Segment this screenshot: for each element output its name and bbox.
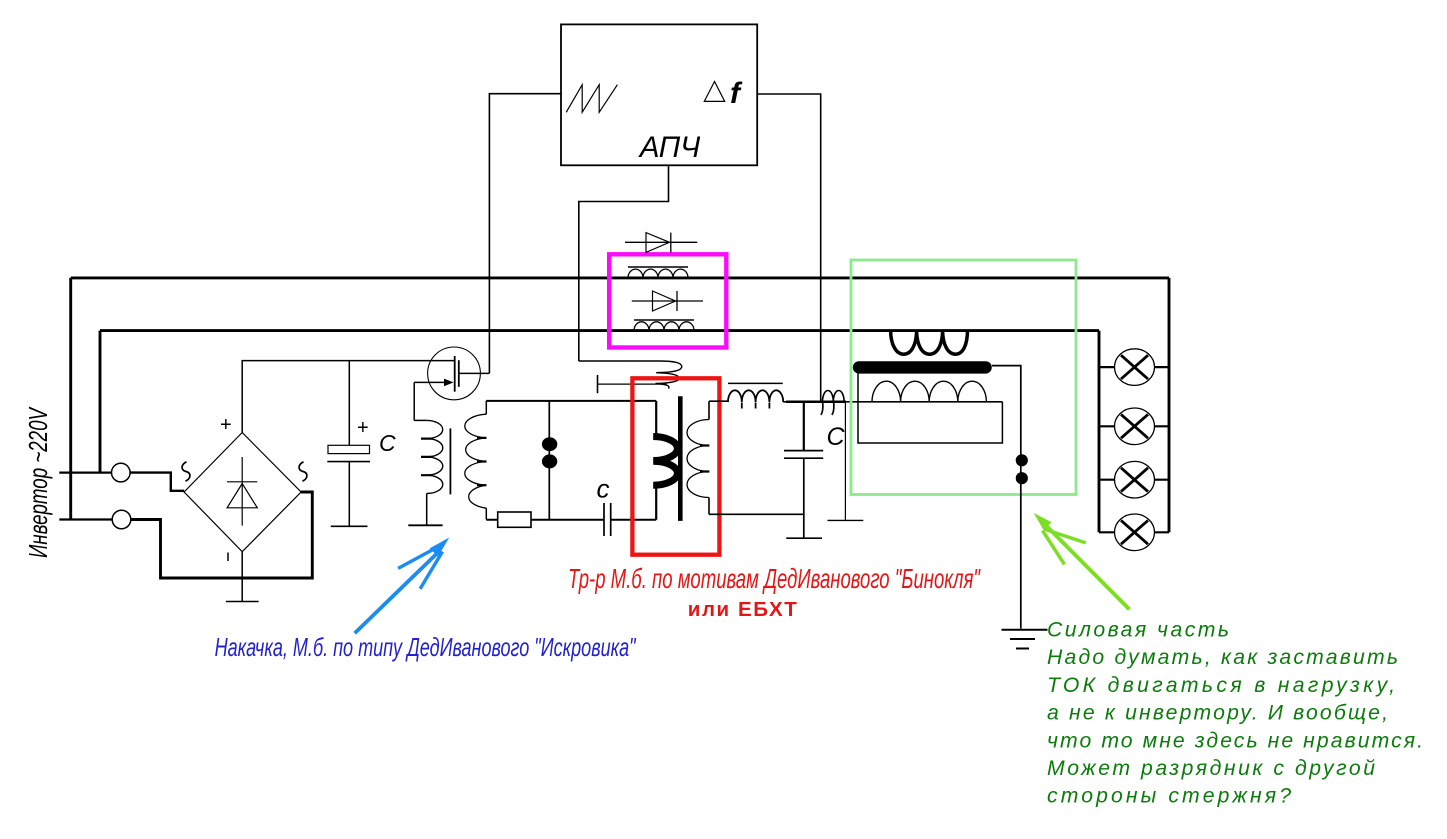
junction dot A1 [542,437,557,451]
T1 core line [449,428,451,494]
junction dot A2 [542,454,557,468]
lamp EL4 [1099,514,1169,551]
green annotation arrow [1034,513,1130,610]
green highlight box [851,260,1076,495]
MOSFET Q1 circle [428,347,481,400]
svg-text:C: C [379,430,396,456]
svg-text:стороны стержня?: стороны стержня? [1047,785,1291,808]
terminal X2 [112,510,131,529]
top bus wire [71,276,1169,279]
T4 core heavy bar [859,361,986,373]
terminal X1 [112,463,131,482]
wire APCh left to drain vertical [489,94,561,374]
sawtooth waveform symbol [566,85,617,113]
T4 winding return frame [858,374,1002,444]
junction dot B1 [1016,454,1028,466]
diode VD1 [625,233,697,253]
capacitor C1 polarized [327,361,370,527]
T2 core bar [678,396,683,521]
saturable reactor L2 [628,267,688,278]
magenta highlight box [609,254,726,347]
wire stub to terminal 1 [59,472,111,474]
wire bridge plus to gate line [242,361,455,433]
junction link wire [548,401,550,520]
wire left drop from second bus [99,331,102,473]
bridge rectifier VD diamond [184,433,301,552]
svg-text:Накачка, М.б. по типу ДедИвано: Накачка, М.б. по типу ДедИванового "Искр… [215,632,637,662]
ground symbol bottom right [1002,630,1048,649]
MOSFET Q1 source wire with arrow [414,379,453,421]
MOSFET Q1 gate bar [454,356,456,392]
T4 secondary winding [872,381,986,402]
feedback mini transformer T3 [821,391,844,415]
svg-text:Силовая часть: Силовая часть [1047,619,1229,642]
svg-text:Надо думать, как заставить: Надо думать, как заставить [1047,646,1398,669]
svg-text:c: c [597,473,610,503]
spark gap stub wire [828,402,864,521]
svg-text:а не к инвертору. И вообще,: а не к инвертору. И вообще, [1047,702,1388,725]
minus label of bridge [227,553,229,562]
diode VD2 [632,291,703,311]
AC tilde left [182,462,190,481]
pump transformer T1 primary winding [414,420,443,525]
lamp bus left [1098,331,1101,533]
capacitor C3 [784,402,823,538]
svg-text:ТОК двигаться в нагрузку,: ТОК двигаться в нагрузку, [1047,674,1395,697]
svg-text:Тр-р М.б. по мотивам ДедИванов: Тр-р М.б. по мотивам ДедИванового "Бинок… [568,563,981,594]
main transformer T2 secondary winding [687,401,709,514]
MOSFET Q1 drain wire [459,372,490,374]
capacitor c2 series [604,503,611,536]
saturable reactor L3 [634,320,694,331]
oscillator top wire [486,400,656,402]
svg-text:что то мне здесь не нравится.: что то мне здесь не нравится. [1047,729,1423,752]
svg-text:или ЕБХТ: или ЕБХТ [688,598,797,621]
svg-text:Инвертор ~220V: Инвертор ~220V [23,406,53,558]
MOSFET Q1 channel bar [458,360,460,387]
svg-text:C: C [827,423,846,451]
power transformer T4 primary thick coil [891,331,968,354]
svg-text:АПЧ: АПЧ [638,131,701,164]
delta-f symbol [704,82,724,102]
pump transformer T1 secondary winding [465,401,487,520]
lamp EL3 [1099,461,1169,498]
blue annotation arrow [355,538,450,634]
green annotation text [1047,619,1423,808]
wire terminal1 to bridge AC1 [130,473,184,491]
svg-text:+: + [220,414,232,436]
lamp EL1 [1099,349,1169,386]
oscillator bottom wire [486,519,656,521]
wire terminal2 to bridge AC2 [131,492,312,578]
wire thick segment [786,401,846,404]
wire APCh right [757,94,821,402]
wire choke to power coil [783,401,1002,403]
bridge inner diode [227,457,257,526]
bridge minus stem to ground [241,552,243,602]
second bus wire [100,329,1099,332]
AC tilde right [299,462,307,481]
main transformer T2 primary thick winding [653,401,677,520]
choke L1 [728,383,783,408]
red highlight box [632,378,719,554]
lamp EL2 [1099,408,1169,445]
T2 secondary top lead [709,400,728,402]
ground of T1 primary [408,524,442,526]
pigtail coupling loop [579,361,682,389]
resistor R1 [498,512,531,527]
ground of bridge [226,601,259,603]
lamp bus right [1168,278,1171,532]
T2 secondary bottom lead [709,513,804,515]
APCh block U1 [561,24,757,165]
svg-text:+: + [357,417,369,439]
T4 core right lead [992,366,1021,629]
wire left drop from top bus [69,278,72,520]
wire stub to terminal 2 [59,518,112,520]
wire APCh bottom feedback [579,165,669,361]
open capacitor plate [598,375,667,393]
junction dot B2 [1016,472,1028,484]
